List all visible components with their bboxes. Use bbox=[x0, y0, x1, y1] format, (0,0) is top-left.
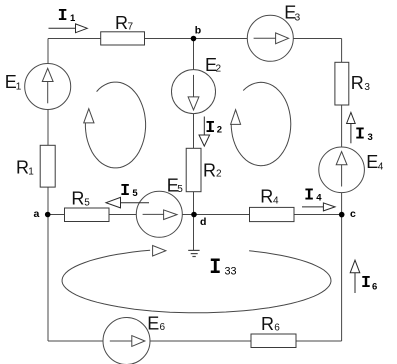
wire left branch bbox=[47, 39, 49, 342]
current arrow I6 bbox=[350, 260, 360, 293]
source E3 bbox=[247, 15, 293, 61]
current arrow I5 bbox=[106, 197, 149, 208]
node d bbox=[191, 212, 197, 218]
svg-text:6: 6 bbox=[274, 323, 280, 334]
svg-text:I: I bbox=[304, 187, 314, 206]
svg-text:I: I bbox=[58, 7, 68, 26]
source E6 bbox=[103, 318, 150, 364]
svg-text:5: 5 bbox=[132, 188, 138, 199]
svg-text:R: R bbox=[115, 13, 128, 33]
svg-text:I: I bbox=[209, 255, 221, 280]
svg-text:E: E bbox=[147, 314, 159, 334]
svg-text:2: 2 bbox=[216, 169, 222, 180]
svg-text:6: 6 bbox=[372, 282, 377, 293]
node b bbox=[191, 36, 197, 42]
source E1 bbox=[25, 64, 71, 110]
resistor R5 bbox=[65, 208, 110, 222]
wire top row a-b-c rail bbox=[48, 38, 342, 40]
resistor R1 bbox=[40, 145, 55, 187]
resistor R7 bbox=[101, 32, 145, 45]
wire row a-d-c bbox=[48, 214, 342, 216]
svg-text:3: 3 bbox=[364, 82, 370, 93]
resistor R6 bbox=[251, 334, 296, 348]
svg-text:5: 5 bbox=[177, 184, 183, 195]
svg-text:4: 4 bbox=[316, 192, 322, 203]
wire bottom row bbox=[48, 340, 342, 342]
svg-text:5: 5 bbox=[84, 198, 90, 209]
svg-text:I: I bbox=[205, 119, 215, 138]
svg-text:2: 2 bbox=[216, 64, 222, 75]
svg-text:3: 3 bbox=[368, 132, 373, 143]
current arrow I3 bbox=[347, 112, 356, 143]
svg-text:I: I bbox=[361, 274, 371, 293]
svg-text:1: 1 bbox=[70, 13, 76, 24]
svg-text:I: I bbox=[355, 125, 365, 144]
svg-text:6: 6 bbox=[160, 322, 166, 333]
svg-text:4: 4 bbox=[378, 162, 384, 173]
svg-text:R: R bbox=[16, 158, 29, 178]
svg-text:1: 1 bbox=[16, 82, 22, 93]
svg-text:7: 7 bbox=[128, 21, 134, 32]
svg-text:1: 1 bbox=[28, 167, 34, 178]
svg-text:E: E bbox=[366, 152, 378, 172]
ground bbox=[188, 250, 199, 256]
node c bbox=[339, 212, 345, 218]
svg-text:33: 33 bbox=[225, 266, 237, 278]
svg-text:a: a bbox=[34, 208, 40, 220]
resistor R4 bbox=[250, 207, 295, 221]
mesh loop I11 left bbox=[84, 82, 146, 168]
current arrow I1 bbox=[49, 24, 88, 33]
svg-text:d: d bbox=[200, 216, 206, 228]
wire middle column node b to ground bbox=[193, 39, 195, 251]
svg-text:R: R bbox=[71, 189, 84, 209]
svg-text:R: R bbox=[203, 161, 216, 181]
svg-text:4: 4 bbox=[273, 195, 279, 206]
wire right branch bbox=[341, 39, 343, 342]
node a bbox=[45, 212, 51, 218]
resistor R2 bbox=[186, 148, 201, 191]
resistor R3 bbox=[335, 62, 349, 105]
svg-text:c: c bbox=[350, 208, 356, 220]
current arrow I4 bbox=[302, 203, 335, 211]
svg-text:I: I bbox=[120, 182, 130, 201]
mesh loop I22 right bbox=[231, 82, 291, 165]
svg-text:R: R bbox=[351, 73, 364, 93]
svg-text:R: R bbox=[260, 187, 273, 207]
svg-text:3: 3 bbox=[295, 13, 301, 24]
svg-text:R: R bbox=[261, 314, 274, 334]
current arrow I2 bbox=[199, 117, 210, 147]
source E2 bbox=[172, 70, 216, 114]
source E5 bbox=[136, 191, 182, 237]
svg-text:b: b bbox=[195, 25, 201, 37]
source E4 bbox=[319, 147, 365, 193]
svg-text:2: 2 bbox=[217, 125, 222, 136]
mesh loop I33 outer bbox=[62, 246, 331, 313]
